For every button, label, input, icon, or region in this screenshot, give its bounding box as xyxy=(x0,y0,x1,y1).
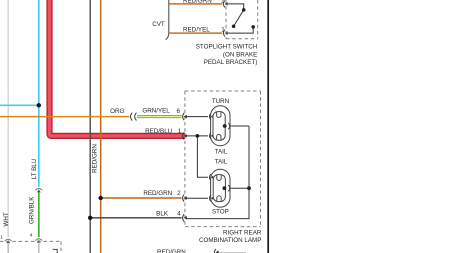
svg-text:GRN/YEL: GRN/YEL xyxy=(142,107,170,114)
bulb B2 tail/stop xyxy=(209,169,230,207)
filament tail xyxy=(217,134,221,139)
lamp internal wires xyxy=(187,117,249,219)
svg-text:1: 1 xyxy=(221,27,225,34)
connector pin 6 lamp xyxy=(183,113,185,120)
wire LT BLU vertical xyxy=(38,0,40,187)
wire RED/GRN orange vertical xyxy=(100,0,102,253)
wire pin6 to turn filament xyxy=(187,116,208,118)
stoplight switch internal wiring xyxy=(227,4,253,33)
connector WHT bottom xyxy=(5,239,12,241)
svg-text:BLK: BLK xyxy=(156,210,169,217)
node junction BLK xyxy=(88,216,92,220)
right rear combination lamp dashed box xyxy=(185,91,261,227)
filament tail2 xyxy=(217,175,221,180)
connector pin 2 stoplight switch xyxy=(223,0,225,7)
svg-text:LT BLU: LT BLU xyxy=(31,158,38,179)
svg-text:6: 6 xyxy=(177,108,181,115)
svg-text:TAIL: TAIL xyxy=(215,158,228,165)
svg-text:2: 2 xyxy=(177,190,181,197)
wire RED/GRN bottom clipped xyxy=(219,252,246,253)
wire branch pin1 down to tail bulb 2 xyxy=(197,136,208,177)
wire pin4 ground bus xyxy=(187,126,249,219)
wire bulb1 output xyxy=(232,125,249,127)
svg-text:TAIL: TAIL xyxy=(215,148,228,155)
node bulb2 common xyxy=(223,186,227,190)
svg-text:STOPLIGHT SWITCH: STOPLIGHT SWITCH xyxy=(196,44,258,51)
switch contact dots xyxy=(242,8,246,12)
wire black vertical right xyxy=(267,0,269,253)
connector pin 1 lamp xyxy=(183,132,185,139)
node junction pin1 branch xyxy=(196,134,200,138)
wire RED thick (vertical + elbow + RED/BLU horizontal) xyxy=(50,0,186,136)
svg-text:1: 1 xyxy=(0,235,3,241)
connector pin 4 lamp xyxy=(183,214,185,221)
wire GRN/BLK vertical xyxy=(38,192,40,237)
wire stub below WHT connector xyxy=(7,244,9,253)
wire RED/YEL to stoplight switch pin 1 xyxy=(170,32,223,34)
svg-text:RED/GRN: RED/GRN xyxy=(92,144,99,173)
svg-text:GRN/BLK: GRN/BLK xyxy=(29,196,36,224)
connector pin 1 stoplight switch xyxy=(223,30,225,37)
svg-text:RED/YEL: RED/YEL xyxy=(183,27,210,34)
connector pin 2 lamp xyxy=(183,194,185,201)
component box bottom dashed xyxy=(0,241,61,253)
svg-text:STOP: STOP xyxy=(212,208,229,215)
wire dark gray vertical xyxy=(89,0,91,253)
svg-text:2: 2 xyxy=(221,0,225,4)
svg-text:1: 1 xyxy=(178,128,182,135)
wire ORG horizontal xyxy=(0,116,129,118)
svg-text:4: 4 xyxy=(177,210,181,217)
switch arm xyxy=(234,10,244,26)
wire LT BLU horizontal branch xyxy=(0,104,39,106)
wire pin1 to tail filament xyxy=(187,135,208,137)
output arc bulb1 xyxy=(228,123,230,129)
svg-text:WHT: WHT xyxy=(3,212,10,226)
svg-text:PEDAL BRACKET): PEDAL BRACKET) xyxy=(204,59,258,66)
svg-text:TURN: TURN xyxy=(212,98,229,105)
svg-text:RIGHT REAR: RIGHT REAR xyxy=(223,230,262,237)
terminal arcs bulb2 xyxy=(209,174,211,180)
svg-text:(ON BRAKE: (ON BRAKE xyxy=(223,51,257,58)
connector GRN/BLK bottom xyxy=(35,239,42,241)
svg-text:RED/BLU: RED/BLU xyxy=(145,128,173,135)
stoplight switch box dashed xyxy=(226,0,258,39)
svg-text:4: 4 xyxy=(30,233,33,239)
connector CVT bracket xyxy=(166,0,169,40)
svg-text:ORG: ORG xyxy=(110,108,124,115)
node junction RED/GRN xyxy=(99,196,103,200)
svg-text:CVT: CVT xyxy=(152,21,165,28)
svg-text:RED/GRN: RED/GRN xyxy=(143,190,172,197)
filament stop xyxy=(217,196,221,201)
bulb B1 turn/tail xyxy=(209,106,230,146)
wire RED/GRN to stoplight switch pin 2 xyxy=(170,3,223,5)
bracket bottom small xyxy=(53,249,58,253)
terminal arcs bulb1 xyxy=(209,113,211,119)
node junction LT BLU xyxy=(37,103,41,107)
svg-text:COMBINATION LAMP: COMBINATION LAMP xyxy=(199,237,261,244)
wire RED/GRN horizontal to pin 2 xyxy=(101,197,182,199)
connector inline ORG/GRN-YEL xyxy=(130,113,136,121)
node junction ground bus xyxy=(247,186,251,190)
wire bulb2 output xyxy=(232,187,249,189)
wire GRN/YEL horizontal xyxy=(137,115,181,118)
wire WHT vertical xyxy=(7,0,9,237)
wire stub below GRN/BLK connector xyxy=(38,243,40,253)
output arc bulb2 xyxy=(228,185,230,191)
node bulb1 common xyxy=(223,124,227,128)
svg-text:RED/GRN: RED/GRN xyxy=(183,0,212,4)
wire BLK horizontal to pin 4 xyxy=(90,217,181,219)
svg-text:RED/GRN: RED/GRN xyxy=(157,249,186,253)
wire pin2 to stop filament xyxy=(187,197,208,199)
connector LT BLU / GRN/BLK inline xyxy=(35,189,42,191)
filament turn xyxy=(217,112,221,117)
